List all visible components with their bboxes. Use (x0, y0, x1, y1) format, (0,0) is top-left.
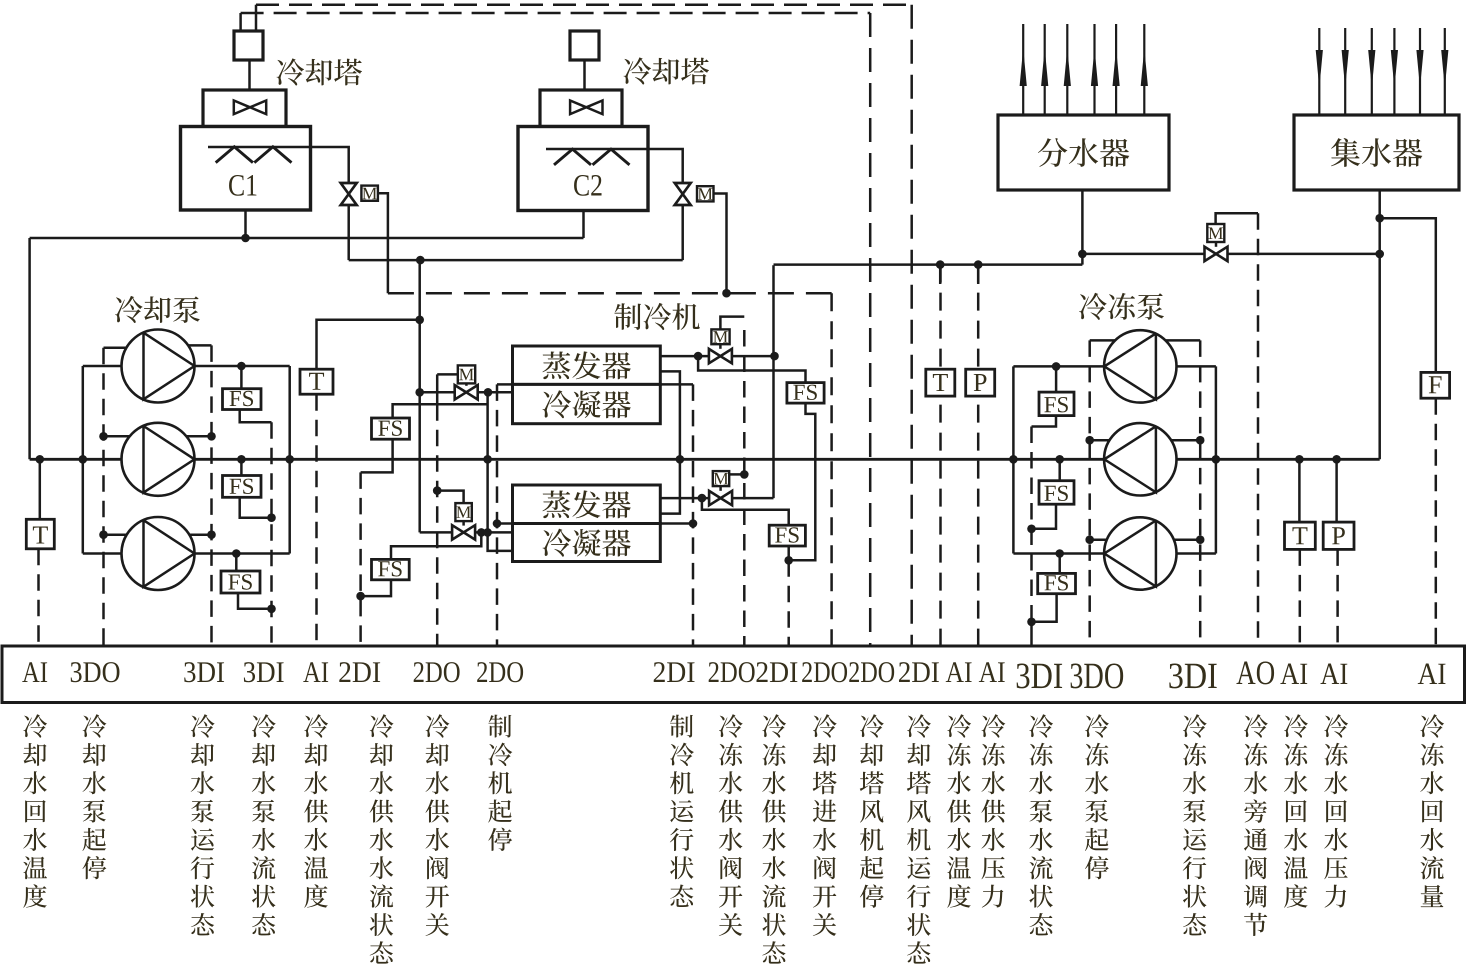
label condenser 1 (543, 390, 631, 418)
wire: evap 2 valve M stem (719, 486, 722, 491)
wire: C1 fan stub to bus 2 (239, 13, 242, 31)
node: upper condenser valve line at riser (415, 388, 424, 397)
wire: P tap stub on supply header (977, 265, 980, 284)
pump P3R chilled water pump circle (1104, 517, 1176, 589)
node: FS-S2 tap on lower condenser valve line (477, 528, 486, 537)
wire: evaporator return link x=679.9 joining both evaporators to main line (660, 371, 680, 513)
wire: tower supply header y=260.1 between C1 and C2 valves (349, 259, 683, 262)
wire: bypass valve M stem (1215, 242, 1218, 247)
wire: C1 fan square to fan housing (248, 60, 251, 90)
nodes: right 3DO bracket junctions (1085, 436, 1094, 445)
sensor FS2 flow switch pump P2 (223, 476, 262, 498)
wire: bracket 3DI to pump P1R (1165, 339, 1200, 342)
wire: C1 fan start stub to bus 1 (255, 5, 258, 31)
wire: dashed DO bus 1 (tower fan start) from C1 fan to drop at x=911 (256, 3, 912, 6)
wire: C1 spray supply line exits box to valve riser (208, 147, 349, 184)
node: T tap on supply header (936, 260, 945, 269)
cooling tower C2 fan square (570, 31, 599, 60)
sensor F chilled return flow meter (1421, 372, 1450, 398)
node: FS-S2 elbow junction on 2DI column (356, 592, 365, 601)
actuator M of bypass valve (1207, 224, 1224, 242)
actuator M of evaporator 1 supply valve (711, 329, 729, 344)
node: evap 2 M stub on 2DO column (740, 470, 749, 479)
node: C1 drain junction on tower header (241, 234, 250, 243)
wire: dashed drop of fan bus 2 to band column 2DO (869, 13, 872, 649)
wire: chilled supply riser x=774 from evaporator valves up to supply header (772, 265, 775, 498)
node: P tap on supply header (974, 260, 983, 269)
wire: FS2R output elbow to 3DI column (1032, 504, 1057, 529)
wire: collector bottom stem down to main line (1378, 190, 1381, 459)
wire: chiller start 2DO stub to chiller 2 boundary (497, 522, 513, 525)
wire: FS1 output elbow to 3DI flow column (240, 410, 272, 423)
wire: cooling pump outlet manifold x=289.7 (288, 366, 291, 554)
label collector (1331, 138, 1422, 167)
node: chilled riser junction on evap 1 valve line (770, 352, 779, 361)
sensor P chilled return pressure (1323, 522, 1354, 549)
label C2 (574, 175, 601, 196)
node: condenser link crossing lower valve line (483, 528, 492, 537)
pump P1R chilled water pump circle (1104, 330, 1176, 402)
wire: C1 drain stem (244, 210, 247, 238)
wire: pump P1R inlet stub (1013, 365, 1104, 368)
labels M on valve actuators (362, 188, 377, 199)
wire: main horizontal water line y=459.3 (30, 458, 1380, 461)
label cooling tower (C2) (624, 57, 709, 84)
wire: distributor bottom stem (1081, 190, 1084, 265)
nodes: main line junctions (36, 455, 45, 464)
wire: bracket 3DO to pump P3R (1090, 538, 1107, 541)
pump P3 cooling water pump circle (122, 517, 195, 590)
wire: evaporator 2 chilled supply line through valve (660, 497, 709, 500)
wire: chilled pump outlet manifold x=1215.9 (1215, 366, 1218, 553)
wire: dashed 3DI column x=1031.5 chilled pump flow status (1030, 427, 1033, 622)
wire: lower valve M stem (462, 521, 465, 526)
wire: lower condenser valve actuator elbow from 2DO column (437, 491, 463, 504)
sensor FS-S1 cooling supply flow switch chiller 1 (372, 418, 410, 439)
cooling tower C2 spray nozzles (554, 149, 591, 165)
wire: dashed 2DO column x=497 chiller start/stop (496, 384, 499, 649)
node: junction after upper condenser valve (484, 388, 493, 397)
chiller 2 condenser box (513, 524, 661, 562)
wire: bracket 3DI to pump P2 (187, 435, 212, 438)
node: FS3R tap on pump P3R inlet (1055, 549, 1064, 558)
wire: chiller start 2DO stub to chiller 1 boundary (497, 383, 513, 386)
wire: FS3 output elbow to 3DI flow column (238, 593, 272, 609)
band point description columns (23, 714, 47, 907)
wire: dashed 2DO column x=744 chilled supply valve (743, 330, 746, 649)
label chilled pumps (1079, 293, 1164, 320)
water collector box (1294, 115, 1459, 190)
wire: pump P3 inlet stub (83, 552, 122, 555)
wire: dashed drop of fan bus 1 to band column 2DI (910, 5, 913, 649)
wire: dashed 2DI column x=360.6 cooling supply flow status (359, 472, 362, 649)
wire: supply FS-S1 output elbow down-left to 2DI column (361, 439, 393, 472)
node: collector stem branch to F meter (1375, 214, 1384, 223)
wire: FS1 tap on pump P1 outlet (240, 366, 243, 389)
wire: dashed AI column x=316.5 cooling supply temp below T sensor (315, 394, 318, 649)
actuator M of C1 tower inlet valve (361, 186, 378, 201)
node: FS3 tap on pump P3 outlet (232, 549, 241, 558)
wire: bracket 3DI to pump P3R (1174, 538, 1201, 541)
wire: bracket 3DI to pump P3 (189, 533, 211, 536)
valve: chilled water bypass valve (1205, 247, 1228, 261)
label C1 (229, 175, 256, 196)
pump P2R chilled water pump circle (1104, 423, 1176, 495)
nodes: 3DI bracket junctions pumps P2 P3 (207, 432, 216, 441)
wire: dashed AI column x=978 chilled supply pressure through P box (977, 265, 980, 649)
cooling tower C1 fan housing (203, 90, 286, 127)
sensor FS3 flow switch pump P3 (221, 571, 260, 593)
wire: dashed DO bus 2 (tower fan) from C1 fan to drop at x=870 (241, 12, 871, 15)
wire: right P sensor stem from main line (1335, 459, 1338, 522)
label cooling tower (C1) (277, 58, 362, 85)
node: C2 M actuator junction on valve bus (722, 289, 731, 298)
wire: chiller 1 run-status stub right of boundary (660, 383, 693, 386)
wire: condenser link x=487.6 from upper valve line to main line to lower condenser inlet (488, 392, 513, 551)
cooling tower C1 spray line inside (208, 146, 311, 149)
label chiller units (614, 303, 699, 330)
cooling tower C2 fan housing (540, 90, 622, 127)
wire: left T sensor stem from main line (39, 459, 42, 519)
wire: left downcomer x=29.6 from tower header to main line (28, 238, 31, 459)
node: distributor stem / bypass junction (1078, 250, 1087, 259)
valve: C1 tower inlet valve (341, 183, 357, 205)
labels FS on flow switches (230, 391, 254, 406)
wire: bracket 3DI to pump P1 (188, 344, 211, 347)
wire: upper condenser valve line riser to condenser C1 (420, 391, 455, 394)
valve: evaporator 1 supply valve (709, 349, 732, 363)
cooling tower C2 body (518, 127, 648, 211)
pump P1 cooling water pump circle (122, 330, 195, 403)
node: FS outputs join on 2DI column (784, 556, 793, 565)
wire: FS1R tap on pump P1R inlet (1055, 366, 1058, 392)
label evaporator 2 (542, 490, 630, 518)
valve: chiller 2 condenser inlet valve (452, 525, 475, 539)
labels T sensors (33, 526, 48, 543)
sensor T cooling return temperature (26, 519, 54, 549)
node: FS1 tap on pump P1 outlet (237, 362, 246, 371)
wire: dashed AI column x=1299.8 chilled return temp below right T (1299, 549, 1302, 649)
sensor FS-S2 cooling supply flow switch chiller 2 (372, 559, 410, 579)
chiller 1 condenser box (513, 384, 661, 423)
label evaporator 1 (542, 351, 630, 379)
wire: chilled FS-C2 tap bypass under evap 2 valve (702, 498, 789, 525)
wire: signal from C2 valve actuator M down to valve bus (713, 194, 727, 294)
wire: dashed AI column x=1337.6 chilled return pressure below right P (1336, 549, 1339, 649)
wire: pump P3R inlet stub (1013, 552, 1104, 555)
valve: chiller 1 condenser inlet valve (455, 385, 478, 399)
sensor FS-C1 chilled supply flow switch chiller 1 (787, 383, 824, 404)
valve: evaporator 2 supply valve (709, 491, 732, 505)
wire: pump P3 outlet line to manifold (195, 552, 290, 555)
wire: chilled FS-C2 output stem to 2DI column (787, 546, 790, 560)
nodes: 3DO bracket junctions pumps P2 P3 (99, 432, 108, 441)
wire: bypass pipe y=253.9 from distributor stem through bypass valve to collector stem (1082, 253, 1204, 256)
wire: tower outlet header y=238 from x=29.6 to C2 drain (30, 237, 584, 240)
node: chiller run-status stub at chiller 2 boundary (689, 519, 698, 528)
wire: bypass valve M elbow to AO column (1216, 213, 1258, 224)
wire: pump P1 inlet stub (83, 365, 122, 368)
wire: dashed drop tower inlet valve 2DO column (830, 293, 833, 649)
wire: evap 2 valve M stub to 2DO column (729, 473, 744, 476)
wire: FS1R output elbow to 3DI column (1032, 416, 1057, 427)
wire: condenser riser x=419.7 from tower supply header down to lower condenser valve line (418, 260, 421, 532)
wire: bracket 3DO to pump P2 (104, 435, 130, 438)
wire: C2 fan square to fan housing (583, 60, 586, 90)
node: FS-C1 tap before evap 1 valve (694, 352, 703, 361)
wire: dashed AO column x=1258 bypass valve modulation (1257, 213, 1260, 649)
wire: chilled FS-C1 tap bypass under evap 1 valve (698, 356, 805, 383)
sensor FS2R flow switch pump P2R (1039, 481, 1074, 505)
labels P sensors (974, 374, 987, 391)
wire: dashed AI column x=1435.8 chilled return flow below F meter (1435, 398, 1438, 649)
wire: FS2R tap on main line (1058, 459, 1061, 480)
wire: evap 1 valve M stem (719, 344, 722, 349)
water collector inlet arrows (1318, 28, 1320, 115)
wire: FS3 tap on pump P3 outlet (235, 554, 238, 572)
nodes: FS elbow junctions on right 3DI column (1027, 525, 1036, 534)
wire: chilled pump inlet riser x=1013.4 serving pumps 1R and 3R (1012, 366, 1015, 553)
band signal type labels (22, 662, 47, 682)
wire: cooling pump inlet riser x=82.8 serving pumps 1 and 3 (82, 366, 85, 554)
sensor FS3R flow switch pump P3R (1038, 573, 1076, 593)
label distributor (1038, 138, 1129, 167)
wire: bracket 3DO to pump P2R (1090, 439, 1111, 442)
wire: pump P1R outlet stub to manifold (1177, 365, 1216, 368)
wire: chiller 2 run-status stub right of boundary (660, 522, 693, 525)
wire: evap 1 valve M elbow to 2DO column (720, 317, 744, 330)
wire: branch to flow meter F (1380, 218, 1436, 372)
wire: evaporator 1 chilled supply line through valve to riser (660, 355, 708, 358)
cooling tower C1 spray nozzles (216, 147, 253, 163)
sensor T chilled return temperature (1285, 522, 1316, 549)
wire: supply FS-S1 tap to condenser line after valve (393, 404, 488, 418)
sensor P chilled supply pressure (966, 369, 995, 396)
wire: dashed 2DI column x=693 chiller run status (692, 384, 695, 649)
wire: C2 spray supply line exits box to valve riser (546, 149, 683, 184)
wire: FS3R output elbow to 3DI column (1032, 594, 1057, 622)
wire: pump P3R outlet stub to manifold (1177, 552, 1216, 555)
node: riser junction on tower supply header (416, 256, 425, 265)
actuator M of evaporator 2 supply valve (713, 471, 729, 486)
water distributor outlet arrows (1022, 24, 1024, 115)
wire: dashed AI column below left T sensor (cooling return temp) (37, 549, 40, 649)
wire: pump P1 outlet line to manifold (195, 365, 290, 368)
cooling tower C2 fan symbol (570, 101, 602, 115)
cooling tower C1 fan square (234, 31, 263, 60)
label cooling pumps (115, 296, 200, 323)
cooling tower C1 fan symbol (234, 101, 266, 115)
wire: FS2 output elbow to 3DI flow column (240, 497, 272, 518)
wire: chilled FS-C1 output zigzag down to join FS-C2 output (789, 403, 816, 560)
label F sensor (1429, 376, 1442, 393)
wire: bracket 3DO to pump P1 (104, 347, 127, 350)
wire: supply FS-S2 output elbow to 2DI column (361, 580, 391, 596)
water distributor box (998, 115, 1169, 190)
wire: C1 valve to tower supply header (347, 204, 350, 260)
label condenser 2 (543, 529, 631, 557)
node: FS1R tap on pump P1R inlet (1052, 362, 1061, 371)
actuator M of chiller 2 condenser valve (455, 503, 471, 521)
sensor FS1R flow switch pump P1R (1039, 392, 1074, 416)
cooling tower C1 body (181, 127, 311, 211)
sensor FS1 flow switch pump P1 (223, 389, 262, 410)
sensor FS-C2 chilled supply flow switch chiller 2 (769, 525, 805, 546)
sensor T cooling supply temperature (300, 369, 333, 394)
wire: bracket 3DI to pump P2R (1170, 439, 1200, 442)
wire: bracket 3DO to pump P3 (104, 533, 127, 536)
wire: FS3R tap on pump P3R inlet (1058, 554, 1061, 574)
wire: dashed 2DI column x=789 chilled supply flow status (787, 560, 790, 649)
wire: dashed 3DO column x=103.5 cooling pump start/stop (102, 348, 105, 649)
wire: lower condenser valve line from riser to condenser C2 (420, 531, 452, 534)
wire: chilled supply header y=264.6 to distributor (774, 263, 1083, 266)
wire: dashed 3DI column x=1200.2 chilled pump run status (1199, 340, 1202, 649)
sensor T chilled supply temperature (926, 369, 955, 396)
nodes: FS elbow junctions on 3DI flow column (267, 513, 276, 522)
signal terminal band rectangle (2, 646, 1465, 703)
wire: bracket 3DO to pump P1R (1090, 339, 1116, 342)
wire: right T sensor stem from main line (1298, 459, 1301, 522)
wire: dashed tower-inlet-valve bus y=293 joining valve actuators M of C1 and C2 (388, 292, 832, 295)
wire: T tap stub on supply header (939, 265, 942, 284)
actuator M of C2 tower inlet valve (697, 186, 714, 201)
wire: signal from C1 valve actuator M down to valve bus (378, 193, 388, 293)
wire: dashed 3DO column x=1089.7 chilled pump start/stop (1088, 340, 1091, 649)
pump P2 cooling water pump circle (122, 423, 195, 496)
valve: C2 tower inlet valve (675, 183, 691, 205)
wire: C2 drain stem (582, 211, 585, 238)
nodes: right 3DI bracket junctions (1196, 436, 1205, 445)
wire: dashed AI column x=940 chilled supply temp through T box (939, 265, 942, 649)
node: collector stem / bypass junction (1375, 250, 1384, 259)
wire: link from riser to mid T sensor (cooling supply temp) (317, 320, 420, 369)
node: lower condenser M elbow on 2DO column (433, 486, 442, 495)
actuator M of chiller 1 condenser valve (458, 365, 475, 383)
wire: dashed 3DI column x=211.5 cooling pump run status (210, 345, 213, 649)
wire: upper valve M stem (465, 383, 468, 385)
chiller 2 evaporator box (513, 485, 661, 524)
wire: C2 valve down to tower supply header (681, 204, 684, 260)
node: chiller start stub at chiller 2 boundary (493, 519, 502, 528)
cooling tower C2 spray line inside (546, 148, 648, 151)
wire: FS2 tap on main line at pump P2 outlet (240, 459, 243, 475)
node: mid T link junction on condenser riser (415, 316, 424, 325)
wire: upper condenser valve actuator elbow (437, 374, 458, 404)
wire: dashed 2DO column x=437 cooling supply valve (436, 404, 439, 649)
chiller 1 evaporator box (513, 346, 661, 384)
wire: supply FS-S2 tap elbow to lower condenser line (391, 532, 481, 559)
node: FS-C2 tap before evap 2 valve (698, 494, 707, 503)
wire: dashed 3DI column x=271.5 cooling pump flow status (270, 422, 273, 649)
